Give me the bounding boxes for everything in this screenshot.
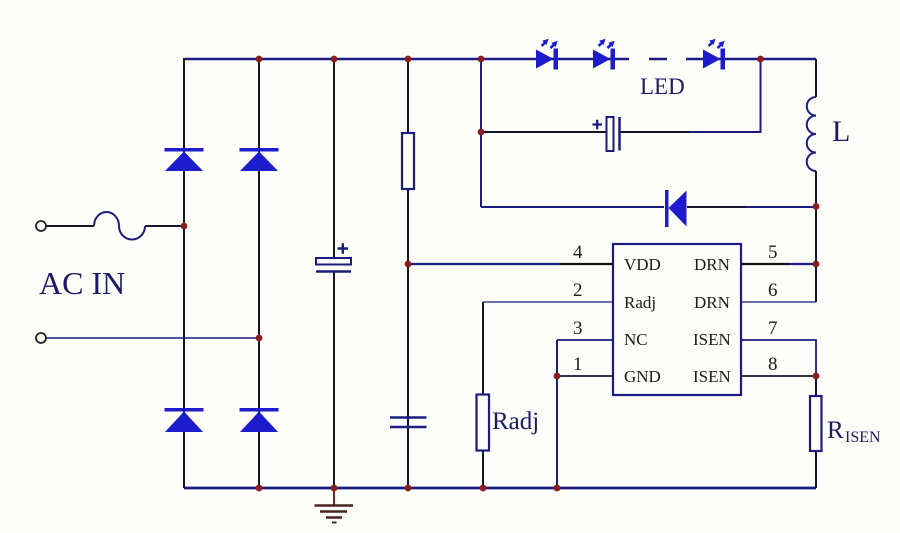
diode D3 bridge lower-left — [165, 408, 204, 432]
svg-text:DRN: DRN — [694, 255, 730, 274]
resistor RISEN — [810, 396, 822, 451]
wire pin1 GND y=376 — [557, 375, 613, 377]
wire pin7 ISEN y=340 — [741, 340, 816, 376]
wire pin4 VDD y=264 — [408, 263, 560, 265]
svg-text:L: L — [832, 115, 850, 148]
LED D5 — [536, 39, 558, 70]
node fuse-bridge — [181, 223, 188, 230]
wire bottom bus y=488 — [184, 487, 816, 490]
node bottom-GND pin — [554, 485, 561, 492]
node top-D2 — [256, 56, 263, 63]
node bottom-R1 — [405, 485, 412, 492]
wire NC-GND branch x=557 — [556, 340, 558, 488]
node C3 branch — [478, 129, 485, 136]
svg-text:8: 8 — [768, 354, 778, 375]
wire main cap branch x=334 — [333, 58, 335, 488]
svg-text:ISEN: ISEN — [693, 367, 731, 386]
node bottom-Radj — [480, 485, 487, 492]
wire feedback branch x=481 — [480, 58, 482, 207]
label RISEN — [827, 417, 881, 446]
LED D6 — [593, 39, 615, 70]
wire freewheel row y=207 — [481, 206, 664, 208]
svg-text:5: 5 — [768, 242, 778, 263]
diode D2 bridge upper-right — [240, 148, 279, 171]
svg-text:GND: GND — [624, 367, 661, 386]
wire top bus y=59 — [185, 58, 816, 60]
node bottom-gnd — [331, 485, 338, 492]
node LED string end — [757, 56, 764, 63]
svg-text:1: 1 — [573, 354, 583, 375]
resistor Radj — [477, 395, 490, 451]
svg-text:NC: NC — [624, 330, 648, 349]
svg-text:ISEN: ISEN — [693, 330, 731, 349]
node DRN5 — [813, 261, 820, 268]
wire right bridge branch x=259 — [258, 58, 260, 488]
svg-text:R: R — [827, 417, 844, 444]
wire cap feedback row y=132 — [481, 131, 606, 133]
node GND-NC — [554, 373, 561, 380]
wire fuse to bridge — [145, 225, 184, 227]
node top-C1 — [331, 56, 338, 63]
ground — [315, 488, 354, 523]
node top-R1 — [405, 56, 412, 63]
wire pin8 ISEN y=376 — [741, 375, 816, 377]
svg-text:Radj: Radj — [624, 293, 656, 312]
inductor L — [807, 97, 816, 171]
IC U1 box — [613, 244, 741, 395]
node bottom-D4 — [256, 485, 263, 492]
capacitor C3 output electrolytic — [593, 117, 620, 151]
wire pin6 DRN y=302 — [741, 301, 816, 303]
svg-text:AC IN: AC IN — [39, 265, 125, 301]
wire right edge x=816 upper — [815, 59, 817, 302]
svg-text:3: 3 — [573, 318, 583, 339]
capacitor C1 electrolytic — [316, 243, 351, 271]
terminal AC top — [36, 221, 46, 231]
wire Radj branch x=483 — [482, 302, 484, 488]
wire AC top lead — [46, 225, 94, 227]
svg-text:2: 2 — [573, 280, 583, 301]
wire pin3 NC y=340 — [557, 339, 613, 341]
capacitor C2 ceramic — [390, 418, 427, 428]
node ACbottom-bridge — [256, 335, 263, 342]
wire pin2 Radj y=302 — [483, 301, 613, 303]
terminal AC bottom — [36, 333, 46, 343]
svg-text:4: 4 — [573, 242, 583, 263]
node VDD tap — [405, 261, 412, 268]
diode D8 freewheel — [665, 190, 687, 227]
fuse F1 — [94, 212, 145, 239]
svg-text:LED: LED — [640, 74, 685, 99]
resistor R1 — [402, 133, 414, 189]
svg-text:DRN: DRN — [694, 293, 730, 312]
wire resistor branch x=408 — [407, 58, 409, 488]
node top-feedback — [478, 56, 485, 63]
svg-text:Radj: Radj — [492, 408, 539, 435]
node L-freewheel — [813, 203, 820, 210]
LED D7 — [703, 39, 725, 70]
svg-text:7: 7 — [768, 318, 778, 339]
wire RISEN branch x=816 — [815, 376, 817, 488]
svg-text:6: 6 — [768, 280, 778, 301]
wire pin5 DRN y=264 — [741, 263, 790, 265]
svg-text:VDD: VDD — [624, 255, 661, 274]
node ISEN8 — [813, 373, 820, 380]
svg-text:ISEN: ISEN — [845, 429, 881, 446]
diode D1 bridge upper-left — [165, 148, 204, 171]
diode D4 bridge lower-right — [240, 408, 279, 432]
wire left bridge branch x=184 — [183, 58, 185, 488]
wire AC bottom lead y=338 — [46, 337, 259, 339]
